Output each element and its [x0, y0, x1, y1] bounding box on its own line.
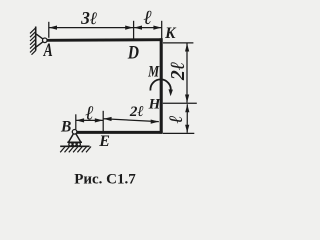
tick right of H	[163, 102, 197, 104]
tick right of K	[163, 42, 193, 44]
arrowhead down at H tick	[185, 95, 189, 103]
arrowhead right at member (2l dim)	[151, 120, 159, 124]
support B triangle	[67, 134, 82, 143]
dimension line 2l (E to member)	[104, 119, 159, 122]
svg-text:B: B	[60, 119, 71, 136]
support A wall hatching	[30, 28, 36, 55]
svg-text:ℓ: ℓ	[85, 102, 94, 124]
wire: vertical member K-bottom	[160, 38, 163, 133]
arrowhead left at B tick	[76, 118, 84, 122]
svg-text:K: K	[164, 25, 177, 42]
svg-text:A: A	[43, 39, 53, 61]
svg-text:Рис. С1.7: Рис. С1.7	[74, 172, 136, 188]
dimension line 3l (A to D)	[49, 27, 133, 29]
paper background	[0, 0, 200, 191]
support A triangle	[36, 34, 43, 47]
svg-text:3ℓ: 3ℓ	[80, 8, 97, 28]
arrowhead right at E tick	[95, 118, 103, 122]
tick above E	[102, 111, 104, 131]
svg-text:ℓ: ℓ	[166, 115, 187, 123]
pin A circle	[43, 38, 48, 43]
tick above B	[75, 114, 77, 129]
arrowhead left at D tick (l dim)	[134, 26, 142, 30]
wire: bottom beam B-member	[76, 131, 163, 134]
svg-text:ℓ: ℓ	[144, 7, 153, 29]
svg-text:D: D	[127, 42, 140, 63]
support A wall line	[35, 27, 37, 51]
tick above K	[161, 21, 163, 39]
tick above A	[48, 22, 50, 38]
moment M arc	[150, 79, 170, 91]
dimension line l (H to bottom, right side)	[186, 104, 188, 133]
svg-text:2ℓ: 2ℓ	[167, 62, 189, 82]
svg-text:H: H	[148, 97, 162, 113]
arrowhead up at K right tick	[185, 43, 189, 51]
moment arrowhead (down, at arc right end)	[169, 89, 173, 96]
tick above D	[133, 21, 135, 40]
arrowhead right at K tick	[153, 26, 161, 30]
arrowhead left at E tick (2l dim)	[104, 117, 112, 121]
arrowhead right at D tick	[125, 26, 133, 30]
arrowhead left at A tick	[49, 26, 57, 30]
dimension line l (B to E)	[76, 119, 103, 121]
support B ground hatching	[60, 147, 91, 153]
dimension line 2l (K to H, right side)	[186, 43, 188, 102]
svg-text:M: M	[147, 63, 159, 81]
dimension line l (D to K)	[134, 27, 162, 29]
svg-text:E: E	[98, 133, 110, 150]
svg-text:2ℓ: 2ℓ	[129, 104, 144, 120]
tick bottom right	[163, 132, 194, 134]
support B rollers	[69, 143, 72, 146]
support B ground line	[60, 145, 89, 147]
wire: top beam A-K	[47, 38, 163, 41]
arrowhead down at bottom tick	[185, 125, 189, 133]
arrowhead up below H tick	[185, 104, 189, 112]
pin B circle	[72, 130, 77, 135]
